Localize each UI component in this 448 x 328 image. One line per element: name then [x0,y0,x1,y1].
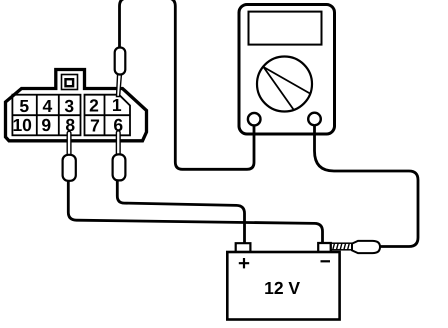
wire: from probe at pin 8 to battery negative post [68,179,322,244]
pin grid right block row divider [85,114,131,116]
pin grid left block (pins 5,4,3 / 10,9,8) [12,95,80,136]
wire: test lead from probe at pin 1 over top edge, down and U-turn up to multimeter left jack [120,0,255,169]
svg-text:3: 3 [64,96,74,116]
probe body at pin 6 [113,154,126,180]
probe body at pin 1 [115,48,126,75]
pin grid divider between 4|3 and 9|8 [58,95,60,136]
svg-text:12 V: 12 V [264,278,300,298]
pin grid divider between 2|1 and 7|6 [104,95,106,136]
wire: from probe at pin 6 to battery positive post [117,179,244,244]
battery probe ferrule hatching [333,243,350,249]
probe needle at pin 6 [116,131,120,156]
probe needle at pin 1 [117,74,122,97]
svg-text:10: 10 [12,115,32,135]
battery plus symbol [239,258,249,268]
svg-text:2: 2 [89,96,99,116]
battery box [227,252,339,320]
multimeter display window [249,12,322,45]
connector tab small square [66,79,74,86]
multimeter left jack [248,113,261,126]
pin grid right block (pins 2,1 / 7,6) [85,95,131,136]
multimeter right jack [308,113,321,126]
wire: test lead from multimeter right jack to battery probe [315,125,419,247]
battery negative post [318,243,331,252]
svg-text:4: 4 [43,96,53,116]
probe body at pin 8 [63,155,76,181]
svg-text:9: 9 [41,115,51,135]
multimeter dial pointer lines [264,67,311,110]
svg-text:1: 1 [112,95,122,115]
multimeter dial [257,57,312,112]
pin grid left block row divider [12,114,80,116]
battery minus symbol [321,260,331,262]
svg-text:7: 7 [90,115,100,135]
connector housing outline [6,70,147,141]
battery probe ferrule tip [331,243,353,250]
probe needle at pin 8 [67,131,71,156]
battery probe body [352,241,380,253]
connector tab inner square [62,75,78,90]
svg-text:5: 5 [19,96,29,116]
battery positive post [236,243,251,252]
multimeter body [239,5,335,135]
pin grid divider between 5|4 and 10|9 [36,95,38,136]
